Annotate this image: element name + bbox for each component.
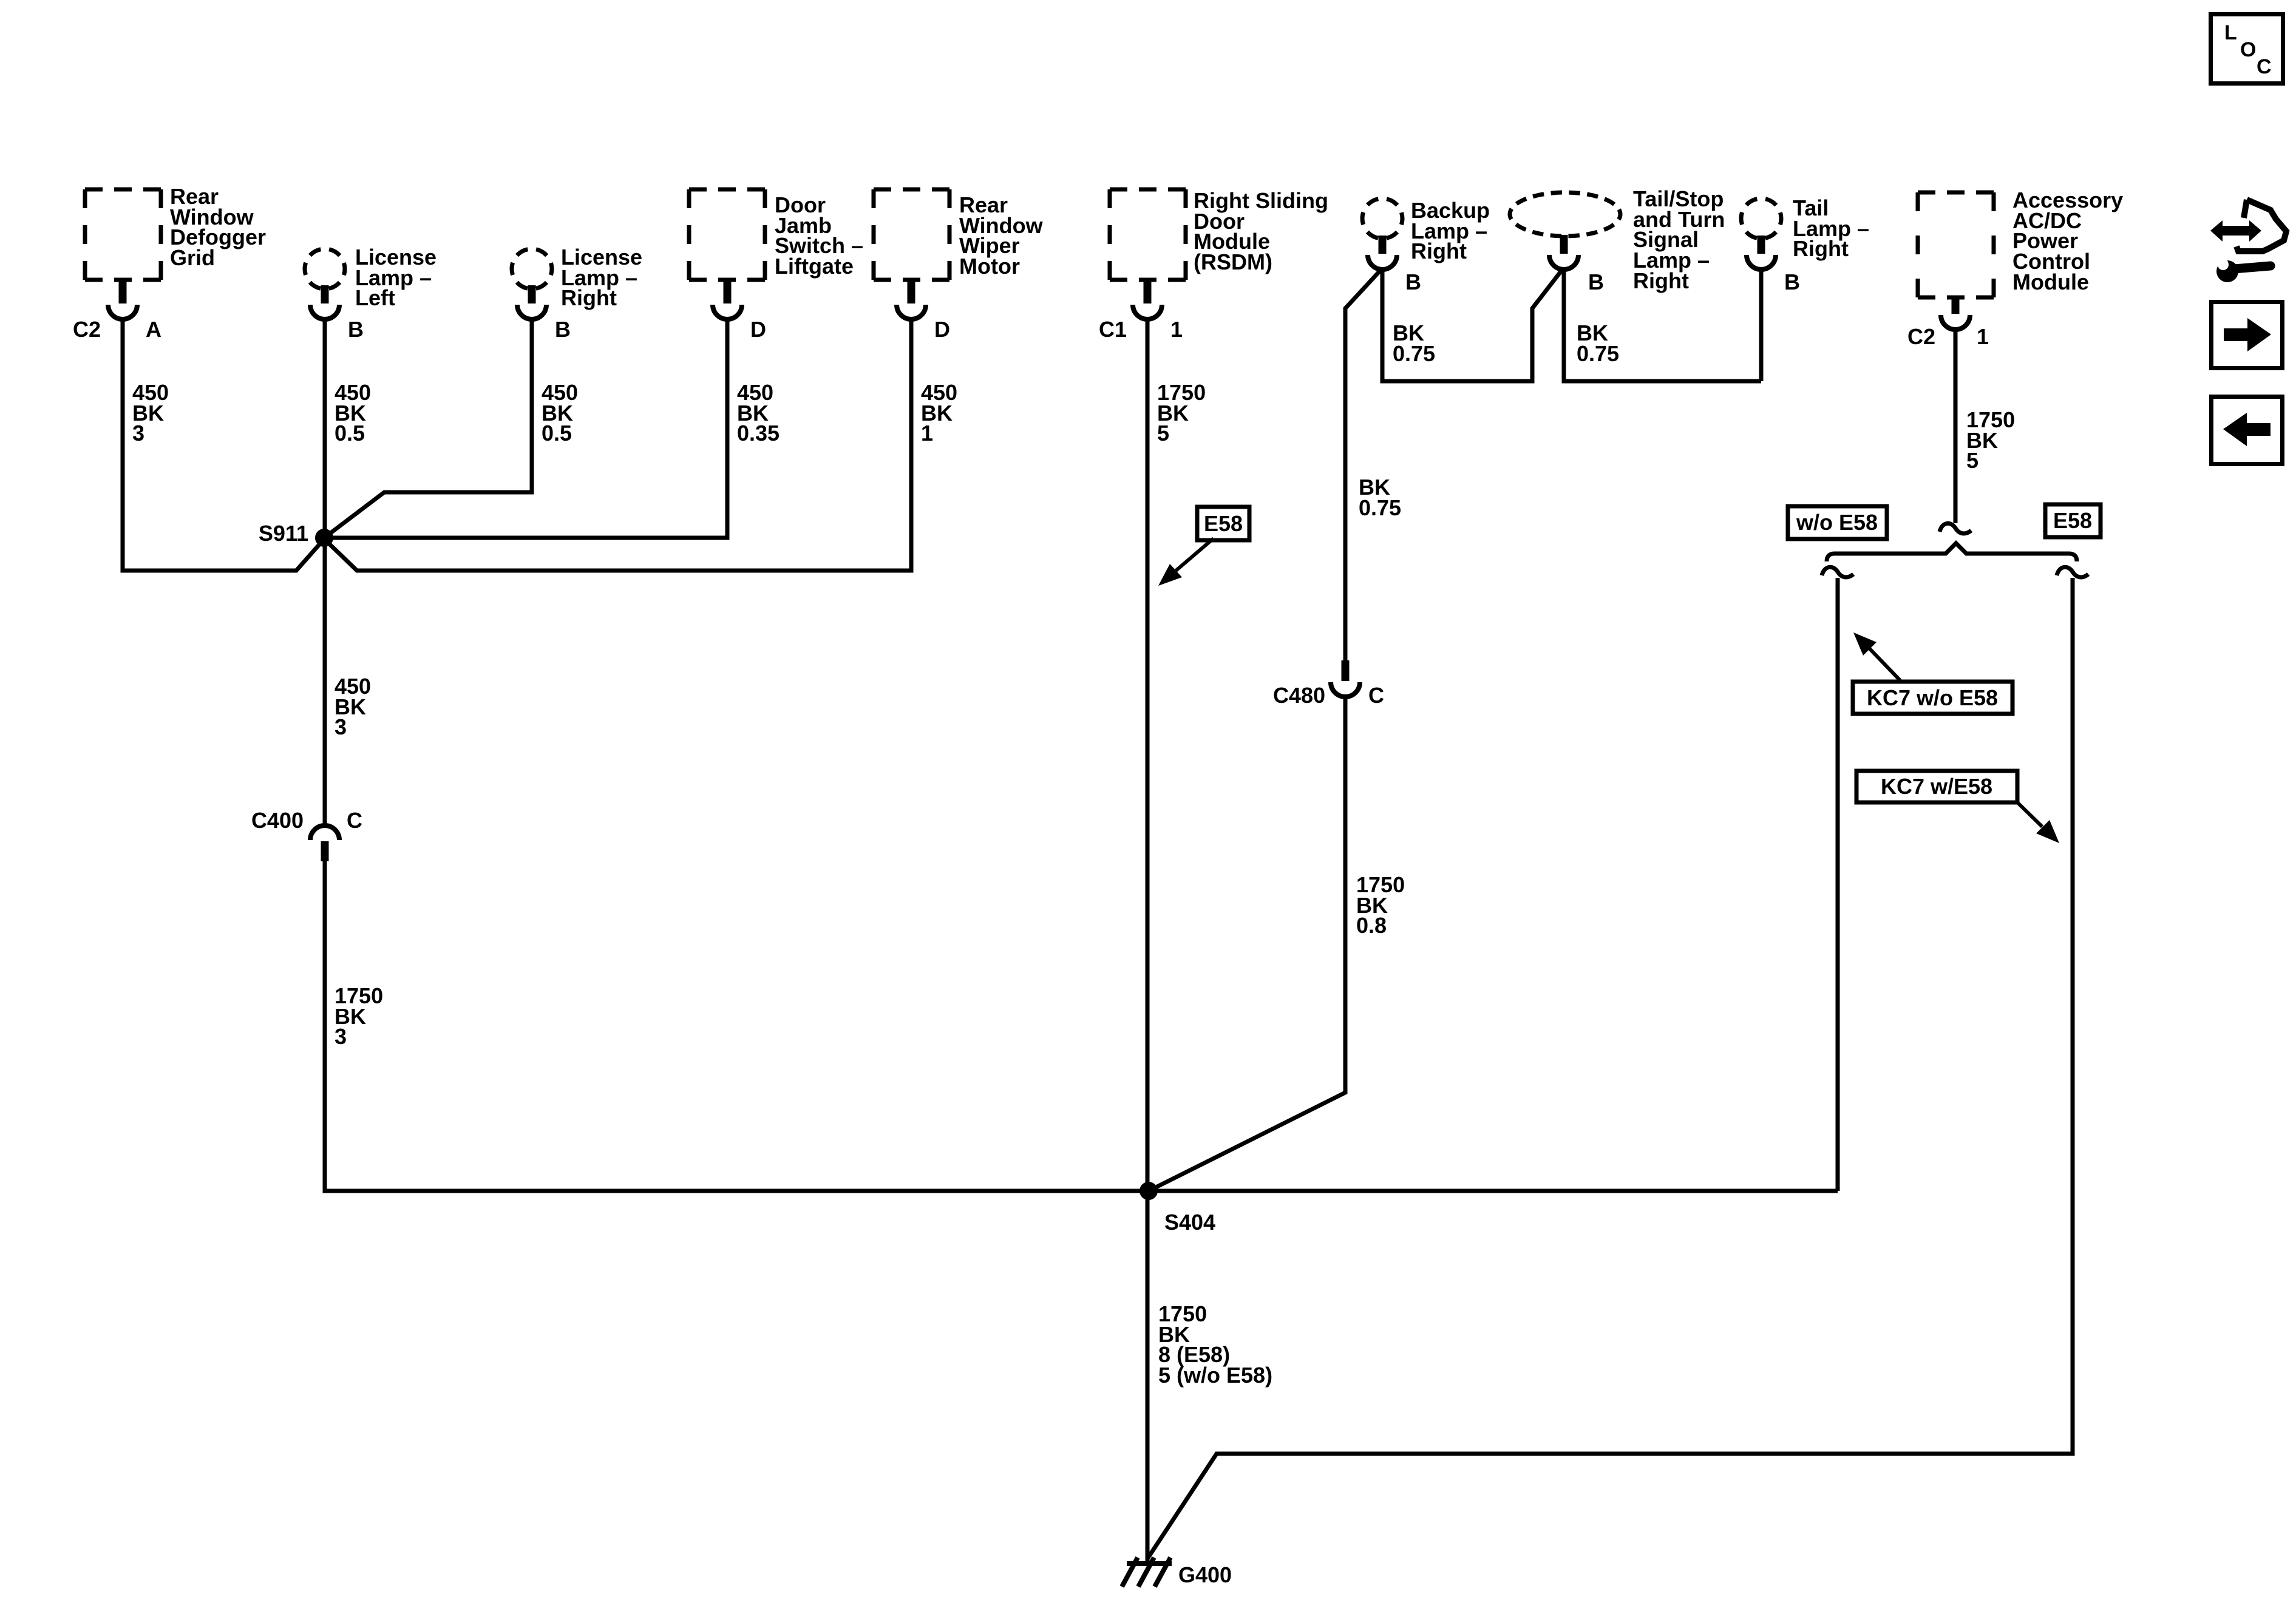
wire 1750 BK 5 RSDM down to S404 [1146,318,1150,1191]
connector C1 pin 1 of RSDM [1133,278,1162,319]
svg-text:C: C [1368,683,1384,708]
ground symbol G400 [1122,1558,1172,1587]
wire break symbol at accessory wire end [1940,523,1971,534]
svg-text:D: D [934,317,950,342]
wire 1750 BK 3 from C400 down/right to S404 [325,861,1149,1191]
svg-text:KC7 w/E58: KC7 w/E58 [1881,774,1992,799]
svg-text:D: D [750,317,766,342]
component: Accessory AC/DC Power Control Module (dashed box) [1918,192,1994,297]
wire 1750 BK 5 accessory module down to option split [1954,328,1958,523]
svg-text:C1: C1 [1099,317,1127,342]
component: License Lamp Left (dashed circle) [305,249,345,289]
component: Backup Lamp Right (dashed circle) [1362,198,1402,239]
next page arrow icon box [2212,302,2283,368]
in-line connector C400 pin C (dome) [310,825,339,840]
svg-text:B: B [555,317,571,342]
svg-text:5 (w/o E58): 5 (w/o E58) [1158,1363,1272,1388]
svg-text:B: B [1588,269,1604,294]
svg-text:5: 5 [1966,448,1978,473]
svg-text:1: 1 [1977,324,1989,349]
svg-text:KC7 w/o E58: KC7 w/o E58 [1867,685,1998,710]
svg-text:C400: C400 [251,808,304,833]
svg-text:S404: S404 [1164,1210,1215,1235]
svg-text:0.35: 0.35 [737,421,779,446]
connector pin D of door jamb switch [713,278,742,319]
splice S404 junction dot [1140,1182,1158,1200]
connector pin B of license lamp left [310,285,339,319]
svg-text:Motor: Motor [959,254,1020,279]
connector C2 pin A of defogger [108,278,137,319]
svg-text:Liftgate: Liftgate [775,254,854,279]
wire BK 0.75 backup lamp down and right to tail/stop lamp [1382,268,1561,381]
svg-text:S911: S911 [259,521,308,546]
curly brace splitting wire into two options [1827,543,2077,561]
svg-text:w/o E58: w/o E58 [1796,510,1878,535]
wire 450 BK 3 defogger to S911 [123,318,324,571]
svg-text:Left: Left [355,285,395,310]
component: Rear Window Wiper Motor (dashed box) [874,189,949,280]
wire 1750 BK 0.8 from C480 down to S404 [1149,696,1345,1191]
wire 450 BK 0.35 door jamb to S911 [324,318,727,538]
svg-text:0.5: 0.5 [335,421,365,446]
svg-text:Right: Right [1633,268,1689,293]
wire 450 BK 3 from S911 down to C400 [323,538,327,825]
svg-text:C2: C2 [73,317,101,342]
wire 450 BK 1 wiper motor to S911 [324,318,911,571]
wire 450 BK 0.5 license right to S911 [324,318,532,538]
connector pin B of tail lamp [1747,236,1776,269]
svg-text:O: O [2240,38,2256,61]
option label box: w/o E58 [1788,506,1887,539]
svg-text:3: 3 [335,714,347,739]
wire BK 0.75 backup lamp diagonal down to C480 [1345,268,1382,662]
svg-text:C480: C480 [1273,683,1325,708]
svg-text:Right: Right [1793,236,1849,261]
connector pin B of license lamp right [517,285,546,319]
arrow from KC7 w/E58 box to right branch [2016,801,2042,827]
svg-text:Right: Right [561,285,617,310]
svg-text:(RSDM): (RSDM) [1194,249,1272,274]
svg-text:Module: Module [2012,269,2089,294]
svg-text:0.75: 0.75 [1359,495,1401,520]
svg-text:1: 1 [921,421,933,446]
wire 450 BK 0.5 license left to S911 [323,318,327,538]
svg-text:L: L [2224,21,2237,44]
LOC icon box top right [2211,15,2283,84]
wire S404 horizontal to w/o E58 branch [1149,1189,1838,1193]
wire 1750 BK 8(E58)/5(w/o E58) from S404 down to G400 [1146,1191,1150,1564]
previous page arrow icon box [2212,397,2283,464]
svg-text:0.5: 0.5 [542,421,572,446]
svg-text:B: B [1405,269,1421,294]
component: Tail Lamp Right (dashed circle) [1741,198,1781,239]
svg-text:5: 5 [1157,421,1169,446]
diagnostic icon: double arrow, panel outline, wrench [2210,200,2286,282]
svg-text:E58: E58 [1204,511,1243,536]
svg-text:A: A [146,317,161,342]
wire tail lamp down to junction [1759,268,1764,381]
wire break symbol at top of w/o E58 branch [1822,567,1853,577]
svg-text:C: C [347,808,362,833]
connector pin D of wiper motor [897,278,926,319]
E58 callout arrow [1176,538,1214,571]
svg-text:B: B [348,317,364,342]
wire BK 0.75 tail/stop lamp down and right to tail lamp [1564,268,1761,381]
connector pin B of backup lamp [1368,236,1397,269]
svg-text:G400: G400 [1178,1562,1232,1587]
svg-text:B: B [1784,269,1800,294]
svg-text:3: 3 [335,1024,347,1049]
svg-text:0.75: 0.75 [1577,341,1619,366]
component: License Lamp Right (dashed circle) [512,249,552,289]
callout box KC7 w/o E58 [1853,682,2012,714]
component: Door Jamb Switch Liftgate (dashed box) [689,189,765,280]
option label box: E58 [2045,504,2101,537]
E58 callout box [1197,507,1249,540]
wire break symbol at top of E58 branch [2057,567,2088,577]
component: Tail/Stop and Turn Signal Lamp Right (dashed ellipse) [1510,192,1620,236]
splice S911 junction dot [315,529,333,547]
wire E58 branch down and left to ground wire [1147,578,2073,1559]
callout box KC7 w/E58 [1856,771,2017,802]
svg-text:Right: Right [1411,239,1467,263]
svg-text:1: 1 [1170,317,1183,342]
connector C2 pin 1 of accessory module [1941,296,1970,330]
svg-text:0.75: 0.75 [1393,341,1435,366]
connector pin B of tail/stop lamp [1549,235,1578,269]
svg-text:Grid: Grid [170,245,215,270]
svg-text:0.8: 0.8 [1356,913,1387,938]
svg-text:C: C [2257,55,2272,78]
arrow from KC7 w/o E58 box to left branch [1869,648,1900,680]
svg-text:3: 3 [132,421,144,446]
svg-text:E58: E58 [2053,508,2092,533]
svg-text:C2: C2 [1907,324,1935,349]
wire w/o E58 branch down to S404 horizontal [1836,578,1840,1191]
component: Rear Window Defogger Grid (dashed box) [85,189,161,280]
component: Right Sliding Door Module RSDM (dashed box) [1110,189,1186,280]
in-line connector C480 pin C [1331,660,1360,697]
